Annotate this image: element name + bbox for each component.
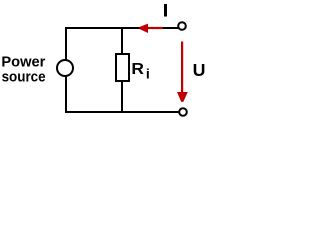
wire resistor branch upper — [121, 27, 123, 55]
label I — [164, 4, 167, 17]
wire top from left corner to top terminal — [65, 27, 178, 29]
terminal bottom — [179, 108, 187, 116]
wire bottom from left corner to bottom terminal — [65, 111, 180, 113]
power source circle symbol — [57, 60, 73, 76]
current arrow I (red, pointing left) — [139, 24, 162, 33]
voltage arrow U (red, pointing down) — [177, 42, 188, 102]
wire left vertical lower segment — [65, 76, 67, 113]
svg-text:source: source — [2, 68, 46, 85]
svg-text:U: U — [193, 60, 206, 80]
svg-text:i: i — [146, 66, 150, 82]
svg-text:R: R — [131, 61, 144, 78]
wire resistor branch lower — [121, 80, 123, 113]
terminal top — [178, 22, 186, 30]
resistor Ri body — [116, 54, 129, 81]
wire left vertical upper segment — [65, 27, 67, 60]
